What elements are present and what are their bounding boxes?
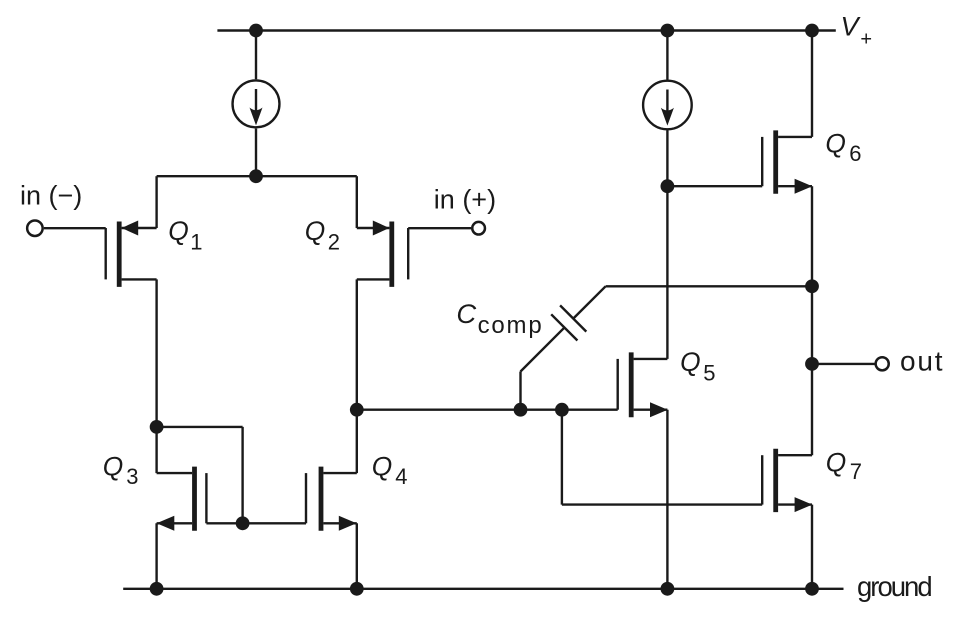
wire in(-) to Q1 gate — [44, 227, 106, 229]
wire Q7 source vertical — [811, 505, 813, 589]
label Q7 — [826, 447, 862, 484]
svg-text:3: 3 — [126, 464, 138, 489]
label Q2 — [305, 216, 340, 254]
node A: tail node of input pair — [249, 169, 263, 183]
svg-text:in (−): in (−) — [20, 181, 82, 211]
wire Ccomp top to output node — [606, 285, 812, 287]
node dot compensation node — [805, 279, 819, 293]
node dot gnd Q3 — [150, 582, 164, 596]
node dot gnd Q7 — [805, 582, 819, 596]
svg-text:Q: Q — [826, 447, 847, 477]
wire Q6 drain down — [811, 186, 813, 364]
terminal in(-) — [27, 220, 43, 236]
svg-text:V: V — [841, 12, 862, 42]
svg-text:ground: ground — [857, 571, 931, 602]
node dot Q4 drain — [350, 403, 364, 417]
label Q3 — [103, 452, 139, 489]
node dot Ccomp tap — [514, 403, 528, 417]
wire main bus to Q5 gate — [357, 409, 618, 411]
node dot gnd Q5 — [661, 582, 675, 596]
wire Q4 source vertical — [356, 523, 358, 589]
wire ground rail — [123, 588, 843, 590]
wire output node down to Q7 drain — [811, 364, 813, 455]
svg-text:1: 1 — [190, 230, 202, 255]
svg-text:2: 2 — [328, 230, 340, 255]
wire node B to Q6 gate — [667, 185, 762, 187]
svg-text:Q: Q — [103, 452, 124, 482]
svg-text:Q: Q — [825, 129, 846, 159]
wire drop to Q1 source — [155, 176, 157, 228]
wire Q7 gate drop — [561, 410, 563, 505]
svg-text:5: 5 — [703, 360, 715, 385]
wire drop to Q2 source — [356, 176, 358, 228]
node dot Q7 gate tap — [555, 403, 569, 417]
wire out — [812, 363, 875, 365]
label Q4 — [372, 452, 408, 489]
wire diode connect vertical — [241, 427, 243, 523]
wire Q3-Q4 gate bus — [206, 522, 306, 524]
node dot output — [805, 357, 819, 371]
current source I2 — [643, 31, 692, 187]
node dot Q3 diode connection — [150, 420, 164, 434]
label Q1 — [168, 216, 202, 254]
capacitor Ccomp — [521, 286, 606, 409]
wire diode connect horizontal — [157, 426, 243, 428]
transistor Q3 — [157, 467, 207, 531]
node dot top-mid — [661, 24, 675, 38]
wire Q1 drain vertical — [155, 279, 157, 473]
label Q6 — [825, 129, 861, 167]
wire node B down to Q5 drain — [666, 186, 668, 359]
node dot top-left — [249, 24, 263, 38]
label Q5 — [680, 347, 715, 385]
wire top rail V+ — [217, 29, 835, 31]
svg-text:+: + — [860, 28, 872, 50]
svg-text:7: 7 — [850, 459, 862, 484]
label V+ — [841, 12, 873, 51]
wire Q6 source to rail — [811, 31, 813, 137]
svg-text:out: out — [900, 345, 944, 376]
transistor Q1 — [106, 221, 157, 287]
svg-text:Q: Q — [168, 216, 189, 246]
transistor Q5 — [618, 352, 668, 417]
svg-text:in (+): in (+) — [434, 185, 496, 215]
wire in(+) to Q2 gate — [408, 227, 471, 229]
svg-text:Q: Q — [680, 347, 701, 377]
wire Q2 drain vertical — [356, 279, 358, 473]
transistor Q7 — [762, 449, 812, 512]
transistor Q6 — [762, 130, 812, 193]
svg-text:Q: Q — [372, 452, 393, 482]
current source I1 — [233, 31, 280, 177]
node B: Q6 gate node — [661, 179, 675, 193]
transistor Q2 — [357, 221, 408, 287]
node dot top-right — [805, 24, 819, 38]
wire Q3 source vertical — [155, 523, 157, 589]
wire tail node horizontal — [157, 175, 357, 177]
svg-text:C: C — [456, 299, 476, 329]
svg-text:comp: comp — [478, 312, 544, 339]
svg-text:Q: Q — [305, 216, 326, 246]
node dot Q3-Q4 gates — [236, 516, 250, 530]
label Ccomp — [456, 299, 543, 339]
transistor Q4 — [306, 467, 357, 531]
wire Q7 gate horizontal — [562, 503, 762, 505]
wire Q5 source vertical — [666, 410, 668, 589]
terminal out — [876, 357, 889, 370]
svg-text:4: 4 — [395, 464, 407, 489]
svg-text:6: 6 — [849, 141, 861, 166]
node dot gnd Q4 — [350, 582, 364, 596]
terminal in(+) — [472, 222, 485, 235]
